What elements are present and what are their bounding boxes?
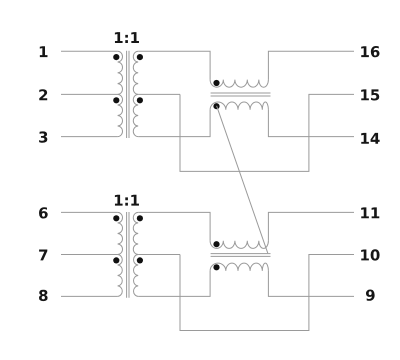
transformer T1 primary winding upper section <box>118 51 123 94</box>
transformer T2 polarity dot secondary upper <box>137 215 143 221</box>
transformer T2 secondary winding lower section <box>134 255 139 297</box>
pin label 3 <box>39 131 47 142</box>
pin label 7 <box>39 250 47 261</box>
transformer T1 polarity dot primary upper <box>113 54 119 60</box>
pin label 16 <box>361 46 379 57</box>
wire choke to pin-top-right T2 <box>268 212 354 240</box>
ratio label transformer T1 <box>115 32 139 43</box>
pin label 14 <box>361 133 379 144</box>
transformer T2 secondary winding upper section <box>133 212 138 254</box>
wire secondary top to choke T1 <box>138 51 210 79</box>
choke T2 polarity dot lower <box>213 264 219 270</box>
common-mode choke T1 lower winding <box>210 102 268 110</box>
wire secondary center tap T2 <box>138 254 180 256</box>
wire pin-mid-left T1 <box>61 93 118 95</box>
wire pin-bot-left T2 <box>61 295 118 297</box>
transformer T2 primary winding upper section <box>118 212 123 254</box>
choke T2 polarity dot upper <box>213 241 219 247</box>
common-mode choke T2 upper winding <box>210 241 268 249</box>
common-mode choke T1 core <box>211 93 271 96</box>
transformer T2 polarity dot secondary lower <box>137 257 143 263</box>
transformer T2 primary winding lower section <box>118 255 123 297</box>
transformer T2 polarity dot primary upper <box>113 215 119 221</box>
wire secondary center tap T1 <box>138 93 180 95</box>
wire center-tap route T1 <box>180 94 354 171</box>
pin label 6 <box>39 207 48 218</box>
pin label 9 <box>366 290 375 301</box>
wire center-tap route T2 <box>180 255 354 331</box>
common-mode choke T2 lower winding <box>210 263 268 271</box>
wire secondary top to choke T2 <box>138 212 210 240</box>
pin label 10 <box>361 249 379 260</box>
transformer T2 core <box>127 212 129 298</box>
pin label 2 <box>39 89 47 100</box>
wire secondary bottom to choke T1 <box>138 110 210 137</box>
crossover wire from choke T1 lower dot to choke T2 upper winding right end <box>217 106 268 253</box>
ratio label transformer T2 <box>115 195 139 206</box>
transformer T1 polarity dot primary lower <box>113 97 119 103</box>
common-mode choke T1 upper winding <box>210 80 268 88</box>
choke T1 polarity dot upper <box>213 80 219 86</box>
choke T1 polarity dot lower <box>213 103 219 109</box>
wire pin-bot-left T1 <box>61 136 118 138</box>
transformer T1 secondary winding lower section <box>133 94 138 136</box>
transformer T1 polarity dot secondary lower <box>137 97 143 103</box>
pin label 1 <box>40 46 48 57</box>
wire pin-top-left T2 <box>61 211 118 213</box>
wire pin-top-left T1 <box>61 50 118 52</box>
pin label 8 <box>39 290 48 301</box>
transformer T1 polarity dot secondary upper <box>137 54 143 60</box>
transformer T1 primary winding lower section <box>118 94 123 136</box>
pin label 15 <box>361 89 379 100</box>
wire choke to pin-top-right T1 <box>268 51 354 79</box>
wire pin-mid-left T2 <box>61 254 118 256</box>
transformer T1 secondary winding upper section <box>133 51 138 94</box>
wire choke to pin-bot-right T2 <box>268 271 354 297</box>
transformer T1 core <box>127 51 129 138</box>
pin label 11 <box>361 207 379 218</box>
wire choke to pin-bot-right T1 <box>268 110 354 137</box>
transformer T2 polarity dot primary lower <box>113 257 119 263</box>
wire secondary bottom to choke T2 <box>138 271 210 297</box>
common-mode choke T2 core <box>211 254 271 257</box>
